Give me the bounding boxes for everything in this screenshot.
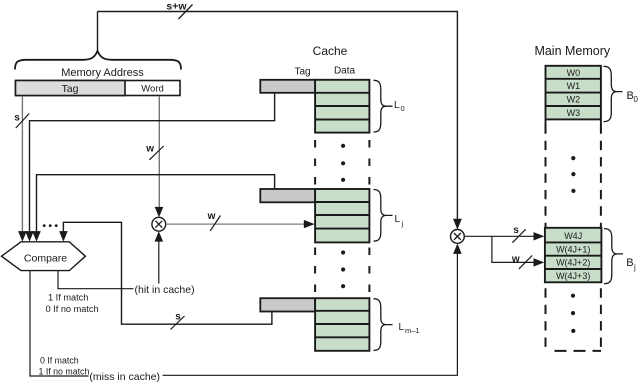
svg-text:j: j <box>633 263 636 272</box>
wire feedback from Lm-1 tag box around to compare <box>63 222 272 324</box>
svg-text:L: L <box>399 322 405 333</box>
svg-text:Cache: Cache <box>313 44 348 58</box>
svg-text:w: w <box>145 144 154 155</box>
arrowhead tag line into compare <box>18 231 27 242</box>
cache line Lm-1 data box <box>315 298 369 351</box>
svg-text:(miss in cache): (miss in cache) <box>89 371 160 383</box>
slash on feedback wire <box>171 316 185 330</box>
svg-text:W(4J+3): W(4J+3) <box>556 271 590 281</box>
svg-text:s: s <box>513 225 519 236</box>
brace Lj <box>374 190 393 242</box>
brace L0 <box>374 80 393 132</box>
svg-text:s: s <box>14 113 20 124</box>
wire miss output from compare <box>30 271 89 376</box>
brace B0 <box>604 66 623 121</box>
svg-text:Tag: Tag <box>62 83 79 95</box>
svg-text:W0: W0 <box>567 68 581 78</box>
wire s+w top line from address to main-memory multiplier <box>98 12 458 220</box>
svg-text:W3: W3 <box>567 108 581 118</box>
svg-text:(hit in cache): (hit in cache) <box>135 284 195 296</box>
dashed rails main memory <box>545 124 547 351</box>
svg-text:0 If match: 0 If match <box>40 355 79 365</box>
multiplier U2 circle-cross <box>451 230 465 244</box>
wire from multiplier U1 to Lj data <box>166 223 305 225</box>
brace Bj <box>604 229 623 284</box>
svg-text:Word: Word <box>141 84 164 95</box>
multiplier U1 circle-cross <box>152 217 166 231</box>
svg-text:W1: W1 <box>567 81 581 91</box>
wire miss line to multiplier U2 <box>163 253 458 375</box>
svg-text:Compare: Compare <box>24 253 67 265</box>
dots below Bj <box>571 294 575 298</box>
svg-text:B: B <box>626 257 633 269</box>
brace over Memory Address <box>15 51 181 70</box>
arrowhead into W(4J+2) <box>534 258 545 266</box>
svg-text:Data: Data <box>334 66 356 77</box>
dots above Bj <box>571 156 575 160</box>
wire from top line down to brace <box>97 12 99 51</box>
arrowhead into multiplier U2 top <box>453 219 462 230</box>
svg-text:Tag: Tag <box>294 67 310 78</box>
slash on tag line <box>16 114 29 129</box>
slash on s memory wire <box>512 229 525 243</box>
svg-text:0: 0 <box>634 95 639 104</box>
svg-text:W2: W2 <box>567 95 581 105</box>
svg-text:L: L <box>394 100 400 111</box>
wire word w line from address word field down to multiplier U1 <box>158 96 160 208</box>
cache line L0 tag box <box>260 80 315 93</box>
svg-text:1 If no match: 1 If no match <box>39 367 90 377</box>
memory address register box <box>16 81 181 96</box>
arrowhead word line into multiplier U1 <box>155 207 164 217</box>
cache line L0 data box <box>315 80 369 133</box>
arrowhead Lj tag line into compare <box>32 231 41 242</box>
slash on word line <box>149 146 163 160</box>
svg-text:W(4J+1): W(4J+1) <box>556 245 590 255</box>
svg-text:s+w: s+w <box>166 1 187 13</box>
wire tag s line from address tag to compare <box>21 96 23 232</box>
svg-text:Main Memory: Main Memory <box>534 44 610 58</box>
slash on w memory wire <box>519 255 532 269</box>
svg-text:1 If match: 1 If match <box>48 292 88 302</box>
dashed rails between Lj and Lm-1 <box>314 248 316 297</box>
arrowhead L0 tag line into compare <box>25 231 34 242</box>
comparator U3 hexagon <box>2 242 86 271</box>
node dots between compare inputs <box>43 224 46 227</box>
tag field (shaded) <box>16 81 126 96</box>
dots between L0 and Lj <box>341 144 345 148</box>
main memory block Bj <box>545 228 602 282</box>
wire hit line up into multiplier U1 <box>158 240 160 284</box>
dashed bottom main memory <box>555 350 602 352</box>
dashed rails between L0 and Lj <box>314 140 316 187</box>
svg-text:0: 0 <box>401 104 405 113</box>
cache line Lm-1 tag box <box>260 298 315 311</box>
svg-text:0 If no match: 0 If no match <box>46 304 99 314</box>
svg-text:Memory Address: Memory Address <box>61 67 144 79</box>
arrowhead hit into multiplier U1 bottom <box>155 231 164 241</box>
svg-text:W(4J+2): W(4J+2) <box>556 258 590 268</box>
arrowhead feedback into compare <box>59 231 68 242</box>
svg-text:w: w <box>207 211 216 222</box>
wire s from multiplier U2 to main memory W4J <box>465 235 535 237</box>
arrowhead into W4J <box>534 232 545 240</box>
wire from Lj tag box to compare <box>37 175 275 232</box>
main memory block B0 <box>546 66 601 125</box>
cache line Lj data box <box>315 189 369 242</box>
wire from L0 tag box to compare <box>30 94 275 233</box>
slash on U1 output <box>210 216 220 231</box>
slash on s+w line <box>179 5 193 20</box>
arrowhead miss into multiplier U2 bottom <box>453 244 462 254</box>
cache line Lj tag box <box>260 189 315 202</box>
arrowhead into Lj data row <box>304 220 315 228</box>
brace Lm-1 <box>374 299 393 351</box>
svg-text:m–1: m–1 <box>405 326 420 335</box>
svg-text:j: j <box>401 219 404 228</box>
wire w branch from multiplier U2 to W(4J+2) <box>492 236 535 262</box>
svg-text:w: w <box>511 254 520 265</box>
dots between Lj and Lm-1 <box>341 250 345 254</box>
wire hit output from compare <box>58 271 134 289</box>
svg-text:W4J: W4J <box>564 231 582 241</box>
svg-text:L: L <box>395 214 401 225</box>
